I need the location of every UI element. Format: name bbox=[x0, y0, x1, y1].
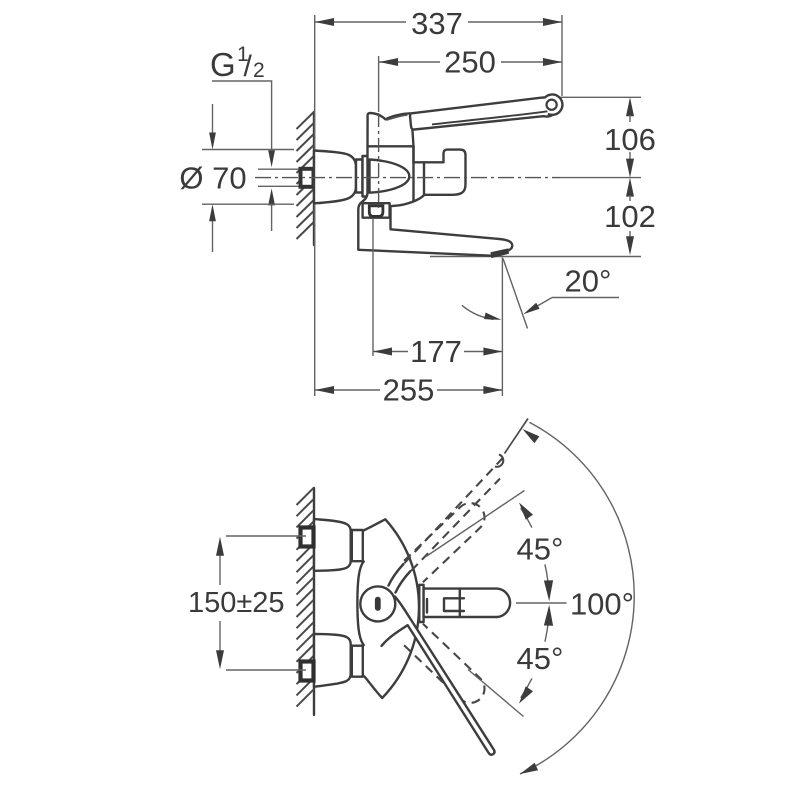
union cone (side view) bbox=[370, 160, 410, 193]
20 deg slanted line bbox=[503, 259, 528, 329]
100 deg swing arc bbox=[520, 422, 634, 774]
upper escutcheon bell (front view) bbox=[314, 519, 351, 571]
handle cap rim line bbox=[387, 115, 408, 120]
wall (front view) bbox=[313, 488, 315, 715]
mousseur nut under body bbox=[363, 203, 390, 218]
svg-text:2: 2 bbox=[253, 59, 265, 82]
dashed long lever raised position bbox=[405, 455, 507, 564]
wall hatching (side view) bbox=[297, 112, 314, 239]
lower G 1/2 nipple (front view) bbox=[301, 662, 314, 681]
svg-text:100°: 100° bbox=[570, 587, 634, 622]
svg-text:250: 250 bbox=[444, 45, 496, 80]
svg-text:/: / bbox=[244, 50, 253, 83]
hub screw slot bbox=[375, 597, 381, 611]
dashed lever position +45 deg bbox=[404, 503, 484, 582]
dimension 102 bbox=[626, 178, 634, 197]
lever fork detail bbox=[444, 598, 464, 611]
horizontal centerline bbox=[255, 177, 560, 179]
wall hatching (front view) bbox=[297, 488, 314, 707]
lower escutcheon bell (front view) bbox=[314, 634, 351, 687]
45 deg reference line lower bbox=[468, 670, 524, 717]
extension line under mousseur for dim 177 bbox=[372, 219, 374, 356]
extension line at wall face for dims 337/255 bbox=[314, 15, 316, 396]
extension line at spout outlet level for dim 102 bbox=[430, 256, 641, 258]
lever collar (front view) bbox=[419, 585, 423, 622]
extension from short lever tip bbox=[516, 602, 567, 604]
20 deg leader bbox=[552, 297, 619, 299]
lever hook tip inner curl bbox=[547, 100, 557, 110]
outlet vertical extension line bbox=[501, 258, 503, 397]
aerator outlet (20 deg) bbox=[491, 248, 510, 258]
extension line top of lever for dim 106 bbox=[558, 96, 641, 98]
mixer body outline left side (front view) bbox=[357, 562, 363, 646]
svg-text:Ø 70: Ø 70 bbox=[179, 161, 246, 196]
dashed lever position -45 deg bbox=[404, 624, 484, 703]
escutcheon bell (side view) bbox=[314, 151, 356, 204]
union flange (side view) bbox=[363, 156, 370, 197]
45 deg reference line upper bbox=[426, 491, 525, 557]
svg-text:255: 255 bbox=[383, 373, 435, 408]
svg-text:20°: 20° bbox=[565, 264, 612, 299]
lever handle (side view) bbox=[410, 98, 558, 130]
extension lines of nipple edges bbox=[258, 168, 299, 170]
dimension 337 bbox=[315, 21, 406, 23]
svg-text:45°: 45° bbox=[517, 532, 564, 567]
svg-text:G: G bbox=[210, 46, 236, 83]
dimension 250 bbox=[378, 56, 380, 112]
mousseur insert bbox=[369, 206, 383, 217]
upper ring nut (front view) bbox=[352, 530, 363, 561]
check valve housing left edge bbox=[423, 162, 425, 194]
short lever horizontal (front view) bbox=[424, 589, 511, 617]
dimension 150±25 bbox=[219, 554, 221, 585]
upper G 1/2 nipple (front view) bbox=[301, 528, 314, 547]
svg-text:102: 102 bbox=[604, 199, 656, 234]
raised lever tip cap bbox=[495, 455, 503, 467]
lower ring nut (front view) bbox=[352, 646, 363, 677]
centerline extension for dims 106/102 bbox=[560, 177, 641, 179]
mixer body outline right side (front view) bbox=[364, 519, 419, 698]
20 deg angle arc bbox=[462, 305, 494, 319]
extension line at lever tip for dims 337/250 bbox=[561, 15, 563, 96]
svg-text:106: 106 bbox=[604, 122, 656, 157]
svg-text:337: 337 bbox=[411, 6, 463, 41]
svg-text:45°: 45° bbox=[517, 641, 564, 676]
lever hook tip curl bbox=[545, 94, 563, 114]
raised lever tip line bbox=[505, 419, 529, 454]
upper 45 deg angle arc bbox=[545, 564, 549, 597]
handle cap bbox=[368, 113, 414, 146]
extension lines for dim 150±25 bbox=[226, 535, 306, 537]
mixer body with spout (side view) bbox=[358, 146, 512, 255]
lever blade inner edge bbox=[432, 111, 549, 124]
lower 45 deg angle arc bbox=[545, 609, 549, 642]
long lever raised position neck bbox=[389, 564, 404, 586]
svg-text:150±25: 150±25 bbox=[188, 587, 285, 619]
handle hub (front view) bbox=[360, 586, 395, 621]
wall (side view) bbox=[313, 112, 315, 245]
vertical centerline of cartridge bbox=[378, 113, 380, 208]
dimension 106 bbox=[626, 97, 634, 116]
long medical lever (front view) bbox=[382, 597, 494, 753]
dimension Ø70 (escutcheon diameter) bbox=[202, 149, 294, 151]
connection ring nut (side view) bbox=[356, 160, 363, 193]
body cartridge column right edge bbox=[412, 146, 414, 200]
G 1/2 wall connection nipple (side view) bbox=[301, 169, 314, 187]
dimension 177 bbox=[373, 351, 408, 353]
leader line G 1/2 bbox=[212, 81, 272, 150]
dimension 255 bbox=[315, 389, 380, 391]
svg-text:177: 177 bbox=[410, 334, 462, 369]
